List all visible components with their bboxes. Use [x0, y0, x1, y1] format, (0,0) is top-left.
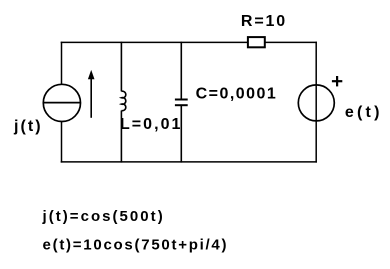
wire right — [315, 42, 317, 163]
inductor L1 — [121, 42, 125, 163]
svg-text:e(t): e(t) — [345, 104, 380, 121]
svg-text:j(t)=cos(500t): j(t)=cos(500t) — [42, 208, 163, 225]
capacitor C1 — [175, 42, 188, 163]
wire left bottom segment — [61, 121, 63, 163]
svg-text:L=0,01: L=0,01 — [120, 116, 180, 133]
current direction arrow — [88, 70, 95, 118]
svg-text:C=0,0001: C=0,0001 — [196, 86, 276, 103]
wire bottom — [61, 161, 317, 163]
wire top — [61, 41, 317, 43]
svg-text:e(t)=10cos(750t+pi/4): e(t)=10cos(750t+pi/4) — [43, 237, 227, 254]
resistor R1 — [248, 37, 265, 47]
plus polarity mark — [332, 76, 342, 86]
voltage source E1 — [298, 85, 334, 121]
svg-text:R=10: R=10 — [241, 13, 285, 30]
wire left top segment — [61, 42, 63, 85]
current source J1 — [43, 84, 80, 121]
